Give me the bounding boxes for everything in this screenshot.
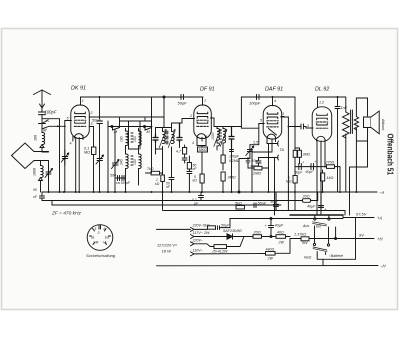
switch K — [39, 118, 50, 124]
resistor 1.37k 5W — [290, 233, 374, 246]
svg-text:220V~: 220V~ — [192, 224, 204, 228]
switch pole A — [302, 215, 330, 229]
tuning arrow IF1 left — [159, 130, 166, 148]
resistor 1M lower — [286, 167, 297, 192]
frame antenna (diamond loop) — [12, 143, 49, 169]
svg-text:Sockelschaltung: Sockelschaltung — [86, 253, 116, 258]
svg-text:M: M — [43, 128, 47, 133]
svg-text:1/M: 1/M — [93, 241, 99, 245]
capacitor 50pF osc — [92, 97, 103, 131]
svg-text:Offenbach 51: Offenbach 51 — [386, 134, 395, 176]
svg-text:440Ω: 440Ω — [266, 248, 275, 252]
top B+ bus — [81, 96, 204, 98]
resistor 1k — [321, 170, 334, 192]
svg-text:1: 1 — [204, 99, 206, 103]
tube socket circle — [87, 225, 113, 251]
IF1 frame wires — [156, 119, 183, 156]
TA jack upper — [267, 141, 285, 152]
svg-text:2: 2 — [189, 114, 192, 118]
capacitor 0.1uF mid — [192, 192, 204, 206]
capacitor 100pF top — [249, 95, 261, 106]
svg-text:50µF: 50µF — [295, 171, 304, 175]
svg-text:2W: 2W — [278, 241, 285, 245]
svg-text:4: 4 — [274, 99, 276, 103]
antenna — [34, 90, 51, 108]
tube DL92 — [306, 100, 332, 146]
electrolytic cap small — [246, 158, 261, 167]
coil IF1 left — [163, 128, 166, 144]
svg-text:180: 180 — [34, 135, 38, 141]
tuning arrow IF1 right — [168, 130, 175, 148]
svg-text:1000: 1000 — [33, 168, 37, 176]
svg-text:67,5V: 67,5V — [356, 212, 367, 217]
svg-text:4: 4 — [70, 142, 72, 146]
svg-text:3MΩ: 3MΩ — [228, 176, 236, 180]
tube DAF91 — [259, 97, 284, 146]
wire switch M down — [59, 119, 61, 192]
wire DF91 grid left — [182, 118, 188, 120]
svg-text:ZF = 470 kHz: ZF = 470 kHz — [51, 211, 81, 217]
loudspeaker — [364, 111, 380, 134]
svg-text:1nF: 1nF — [341, 106, 348, 110]
mains plug prong 3 — [191, 238, 215, 246]
svg-text:+H: +H — [377, 237, 383, 242]
svg-text:5: 5 — [260, 119, 262, 123]
wire DAF91 anode to coupling cap — [281, 117, 301, 192]
wire DL92 pins down — [317, 146, 325, 215]
tuning arrow IF2 left — [214, 130, 221, 147]
svg-text:100pF: 100pF — [45, 110, 57, 115]
electrolytic 50uF + 60uF — [295, 160, 327, 175]
svg-text:1kΩ: 1kΩ — [327, 176, 334, 180]
electrolytic 50uF bus — [271, 192, 279, 211]
coil IF1 right — [172, 123, 175, 144]
svg-text:DK 91: DK 91 — [71, 86, 86, 92]
wire TA down lines — [269, 144, 275, 216]
svg-text:117V~: 117V~ — [193, 231, 203, 235]
junction dot IF2 — [238, 191, 240, 193]
svg-text:5W: 5W — [302, 241, 308, 245]
heater bus thick — [290, 214, 343, 216]
capacitor 40uF + top — [265, 218, 284, 238]
svg-text:3: 3 — [282, 112, 284, 116]
trimmer capacitor band left — [96, 131, 104, 192]
wire 1nF junction — [337, 112, 339, 192]
svg-text:40µF: 40µF — [275, 224, 284, 228]
svg-text:117/220 V≈: 117/220 V≈ — [157, 243, 178, 248]
svg-text:TA: TA — [280, 148, 285, 152]
mains plug prong 4 — [191, 248, 266, 256]
resistor 5k screen — [200, 174, 204, 183]
wire DL92 anode top — [318, 97, 346, 100]
wire B+ bus segment right — [241, 96, 295, 98]
svg-text:−H: −H — [380, 264, 386, 269]
svg-text:3: 3 — [91, 122, 93, 126]
wire battery + to +A — [355, 218, 357, 252]
resistor 20 Ohm psu2 — [253, 231, 277, 239]
switch M — [42, 124, 66, 133]
TA jack lower — [259, 155, 279, 160]
resistor 4.7 + cap below IF1 — [176, 145, 187, 163]
wire DF91 screen down — [202, 141, 206, 174]
svg-text:Akkord: Akkord — [381, 119, 385, 130]
svg-text:50µF: 50µF — [221, 224, 230, 228]
diode 5AF230/80 — [206, 229, 253, 239]
wire DAF91 cathode down — [252, 146, 272, 192]
trimmer capacitor frame — [45, 166, 53, 180]
svg-text:2W: 2W — [203, 231, 210, 235]
svg-text:Netz: Netz — [304, 256, 312, 260]
svg-text:Ea: Ea — [105, 236, 109, 240]
resistor 20 Ohm psu — [302, 192, 318, 202]
mains long top line — [157, 228, 191, 230]
svg-text:kΩ: kΩ — [193, 179, 198, 183]
bus 3 — [52, 201, 281, 206]
svg-text:+A: +A — [377, 216, 382, 221]
resistor 0.2M — [221, 146, 240, 170]
resistor 10M grid leak — [293, 148, 310, 167]
psu top wire — [230, 218, 343, 220]
svg-text:110V~: 110V~ — [193, 248, 203, 252]
svg-text:60µF: 60µF — [306, 170, 315, 174]
svg-text:(5+4),2W: (5+4),2W — [213, 250, 228, 254]
svg-text:20Ω: 20Ω — [302, 195, 310, 199]
svg-text:+: + — [315, 160, 317, 164]
volume pot wiper wire — [250, 150, 252, 153]
wire B+ bus right corner down — [294, 97, 296, 148]
svg-text:270Ω: 270Ω — [325, 161, 335, 165]
resistor 3M — [221, 172, 236, 192]
svg-text:3: 3 — [307, 124, 309, 128]
chassis bus -A — [42, 191, 377, 193]
svg-text:180: 180 — [120, 136, 124, 142]
output transformer primary — [342, 97, 349, 192]
svg-text:100: 100 — [133, 136, 137, 142]
wire frame lower tail down — [48, 161, 50, 193]
capacitor IF2 — [214, 127, 234, 149]
tuning arrow IF2 right — [220, 130, 227, 147]
svg-text:+A: +A — [103, 241, 107, 245]
svg-text:3MΩ: 3MΩ — [303, 153, 311, 157]
svg-text:240: 240 — [120, 159, 124, 166]
svg-text:DF 91: DF 91 — [200, 87, 215, 93]
coil L1 antenna — [34, 129, 45, 151]
wire top frame band — [129, 131, 141, 149]
wire cathode down — [75, 138, 77, 193]
svg-text:7kΩ: 7kΩ — [147, 167, 154, 171]
svg-text:ca 50 pF: ca 50 pF — [116, 181, 131, 185]
svg-text:1: 1 — [82, 99, 84, 103]
resistor 5k 2W row1 — [192, 219, 231, 230]
svg-text:10nF: 10nF — [252, 159, 261, 163]
svg-text:a1: a1 — [91, 236, 95, 240]
resistor 2M — [248, 166, 269, 176]
wire grid5 down — [64, 121, 66, 193]
resistor 5k bus — [228, 202, 251, 210]
resistor 7k bottom left IF — [147, 167, 163, 175]
wire top coil right to IF — [144, 118, 146, 121]
capacitor 50nF left end — [33, 188, 59, 201]
svg-text:4: 4 — [192, 141, 194, 145]
resistor 270 — [324, 161, 340, 193]
volume potentiometer — [239, 124, 259, 193]
svg-text:2W: 2W — [267, 257, 274, 261]
resistor 440 2W — [266, 239, 291, 261]
trimmer capacitor main gang 1 — [61, 150, 69, 165]
resistor + capacitor column right of IF1 — [187, 156, 197, 192]
wire bus down to IF2 — [240, 97, 242, 127]
wire bus down to IF1 — [163, 97, 165, 127]
svg-text:500: 500 — [110, 174, 116, 178]
output terminal +H — [359, 233, 383, 242]
wire IF1 bottom to bus — [146, 97, 172, 173]
tube DK91 — [65, 97, 164, 146]
IF1 core — [166, 131, 168, 144]
svg-text:DAF 91: DAF 91 — [265, 87, 283, 93]
svg-text:220V−: 220V− — [192, 238, 204, 242]
svg-text:100pF: 100pF — [249, 101, 261, 106]
svg-text:1,2: 1,2 — [319, 101, 324, 105]
bottom -H long wire — [157, 265, 379, 267]
svg-text:5: 5 — [67, 116, 69, 120]
svg-text:5kΩ: 5kΩ — [235, 202, 242, 206]
svg-text:40Ω: 40Ω — [277, 231, 284, 235]
capacitor 40uF 6V psu — [307, 192, 328, 212]
svg-text:+: + — [302, 161, 304, 165]
svg-text:2: 2 — [90, 111, 93, 115]
svg-text:MΩ: MΩ — [286, 180, 292, 184]
svg-text:2MΩ: 2MΩ — [252, 172, 261, 176]
mains plug prong 1 — [191, 227, 198, 231]
coil pair oscillator — [120, 149, 142, 178]
svg-text:50pF: 50pF — [178, 101, 188, 106]
svg-text:4: 4 — [103, 227, 105, 231]
svg-text:kΩ: kΩ — [155, 182, 160, 186]
bus 4 — [164, 211, 346, 216]
bus 2 — [59, 200, 303, 202]
svg-text:5: 5 — [95, 227, 97, 231]
battery connector box — [304, 252, 356, 266]
capacitor 50nF column — [166, 173, 174, 192]
svg-text:Ein: Ein — [316, 225, 321, 229]
capacitor 1nF — [335, 97, 348, 112]
svg-text:1,37kΩ: 1,37kΩ — [294, 233, 306, 237]
transformer core — [351, 110, 353, 134]
coil pair antenna MW/LW — [120, 129, 142, 150]
capacitor 100pF AVC — [229, 148, 240, 193]
svg-text:MΩ: MΩ — [84, 151, 90, 155]
wire speaker down — [356, 141, 367, 192]
svg-text:DL 92: DL 92 — [315, 87, 329, 93]
resistor 580 cathode — [197, 141, 208, 158]
svg-text:100: 100 — [133, 159, 137, 165]
junction 9V line — [335, 238, 337, 240]
wire switch middles down — [315, 226, 329, 244]
svg-text:0,2MΩ: 0,2MΩ — [229, 159, 240, 163]
coil L2 frame — [33, 161, 44, 193]
wire coil to frame antenna — [42, 151, 49, 153]
svg-text:50: 50 — [33, 188, 37, 192]
component 1k + cap column — [155, 166, 164, 192]
svg-text:40µF: 40µF — [307, 205, 316, 209]
capacitor 500 / ca 50pF series — [110, 174, 131, 186]
junction on B+ bus — [163, 96, 165, 98]
wire osc coils to buses — [108, 127, 139, 193]
trimmer capacitor padder — [112, 130, 120, 178]
svg-text:2,5: 2,5 — [252, 141, 259, 145]
svg-text:50pF: 50pF — [92, 119, 101, 123]
capacitor 50nF bus — [251, 202, 267, 208]
wire speaker return — [350, 167, 368, 215]
resistor 40 Ohm 2W — [276, 231, 290, 245]
svg-text:5AF230/80: 5AF230/80 — [223, 229, 242, 233]
wire IF2 top to pot — [223, 126, 241, 128]
wire column extensions to bus4 — [163, 192, 296, 211]
svg-text:20Ω: 20Ω — [253, 231, 261, 235]
resistor (5+4) 2W — [213, 237, 245, 254]
mains plug prong 2 — [191, 231, 210, 239]
capacitor 50pF coupling on bus — [178, 95, 188, 106]
capacitor IF1 left — [153, 134, 158, 143]
svg-text:3: 3 — [98, 231, 100, 235]
svg-text:50nF: 50nF — [258, 202, 267, 206]
wire pin7 down — [78, 138, 80, 193]
wire antenna to bus corner — [42, 118, 60, 120]
coupling capacitor to DL92 grid — [301, 124, 313, 129]
svg-text:9V: 9V — [359, 233, 364, 238]
svg-text:50µF: 50µF — [271, 200, 279, 204]
svg-text:100pF: 100pF — [229, 155, 240, 159]
switch pole B — [313, 243, 330, 254]
resistor 0.1MOhm — [84, 127, 96, 193]
output transformer secondary — [354, 98, 367, 141]
output terminal +A — [343, 212, 382, 221]
switch M2 row — [108, 117, 152, 134]
wire DF91 anode right — [211, 118, 214, 127]
tube DF91 — [188, 97, 214, 145]
svg-text:580Ω: 580Ω — [199, 148, 208, 152]
svg-text:18 W: 18 W — [162, 249, 173, 254]
svg-text:↑Batterie: ↑Batterie — [329, 254, 343, 258]
junction dots bus — [48, 191, 358, 193]
svg-text:−A: −A — [379, 190, 384, 195]
svg-text:1000: 1000 — [211, 132, 215, 140]
svg-text:Aus: Aus — [302, 224, 309, 228]
capacitor 100pF antenna — [39, 108, 57, 119]
capacitor IF1 right — [177, 123, 182, 142]
